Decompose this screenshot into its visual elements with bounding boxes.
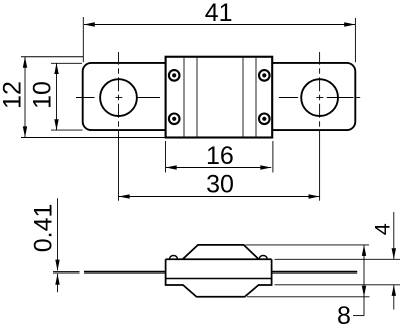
svg-text:41: 41 [205, 0, 233, 27]
svg-text:16: 16 [206, 142, 234, 170]
svg-text:0.41: 0.41 [30, 204, 58, 253]
svg-text:10: 10 [29, 81, 57, 109]
svg-text:30: 30 [206, 171, 234, 199]
svg-text:12: 12 [0, 81, 27, 109]
svg-text:8: 8 [337, 302, 351, 330]
svg-text:4: 4 [371, 223, 395, 235]
